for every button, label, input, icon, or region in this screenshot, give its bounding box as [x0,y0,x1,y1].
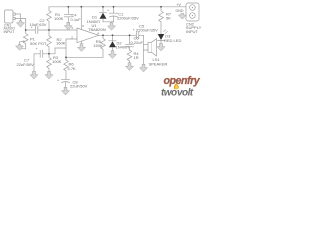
wire feedback [66,56,103,58]
wire output rail [99,34,137,36]
capacitor C5 [133,23,158,38]
junction dots [25,6,162,58]
resistor R5 [93,35,105,57]
ground [108,23,116,30]
ground [178,14,186,20]
svg-text:+: + [133,28,135,32]
logo twovolt flame [174,83,179,89]
svg-text:160K: 160K [56,41,66,46]
svg-text:5K: 5K [166,16,171,21]
capacitor C6 [126,35,144,50]
ground [157,44,165,51]
wire D1 C1 ground bus [103,22,114,23]
wire op-amp ground pin [81,41,83,44]
svg-text:1N4007: 1N4007 [116,45,131,50]
svg-text:6: 6 [82,24,84,28]
ground [62,88,70,95]
wire input signal [26,29,77,31]
resistor R2 [159,7,172,34]
svg-text:two: two [161,88,177,99]
svg-text:22uF/50V: 22uF/50V [17,62,35,67]
resistor R1 [47,7,64,30]
svg-text:+V: +V [176,2,181,7]
ground [64,23,72,30]
ground [16,45,24,50]
diode D1 [87,7,107,24]
svg-text:100K: 100K [54,16,64,21]
svg-text:openfry: openfry [164,75,201,87]
ground [78,44,86,51]
potentiometer P1 [20,30,48,49]
ground [17,21,25,27]
svg-text:100K: 100K [52,59,62,64]
connector CN1 [4,10,26,34]
svg-text:RED LED: RED LED [164,38,181,43]
resistor R3 [47,54,62,72]
ground [45,72,53,79]
capacitor C4 [64,7,81,23]
svg-text:INPUT: INPUT [4,30,16,34]
connector CN2 [182,3,201,34]
svg-text:22uF/50V: 22uF/50V [70,84,88,89]
capacitor C1 [107,7,139,22]
resistor R6 [64,57,76,79]
wire U1 supply pin [80,7,82,30]
svg-text:+: + [57,78,59,82]
capacitor C2 [30,18,47,34]
wire +V top rail [49,6,186,8]
svg-text:3: 3 [71,26,73,30]
svg-text:150K: 150K [93,43,103,48]
svg-text:10uF,63V: 10uF,63V [30,22,47,27]
ground [30,72,38,79]
svg-text:4: 4 [97,31,99,35]
capacitor C7 [17,47,50,72]
wire feedback jog [49,48,66,54]
capacitor C8 [57,57,88,88]
svg-text:2200uF/35V: 2200uF/35V [136,28,158,33]
ground [109,51,117,58]
svg-text:volt: volt [177,88,194,99]
speaker LS1 [144,35,168,66]
svg-text:+: + [36,47,38,51]
svg-text:SPEAKER: SPEAKER [149,62,168,67]
ground [140,65,148,72]
svg-text:0.22uF: 0.22uF [131,40,144,45]
wire inverting input [66,39,77,57]
LED D3 [158,30,182,44]
svg-text:INPUT: INPUT [186,29,199,34]
svg-text:0.1uF: 0.1uF [71,17,82,22]
svg-text:+: + [107,9,109,13]
svg-text:4.7K: 4.7K [68,66,77,71]
svg-text:50K POT: 50K POT [30,41,47,46]
svg-text:1R: 1R [134,55,139,60]
diode D2 [109,35,130,51]
resistor R2 [47,30,66,54]
svg-text:GND: GND [176,9,184,13]
svg-text:2200uF/35V: 2200uF/35V [117,16,139,21]
ground [126,63,134,70]
resistor R4 [127,50,139,63]
op-amp U1 [71,23,105,43]
